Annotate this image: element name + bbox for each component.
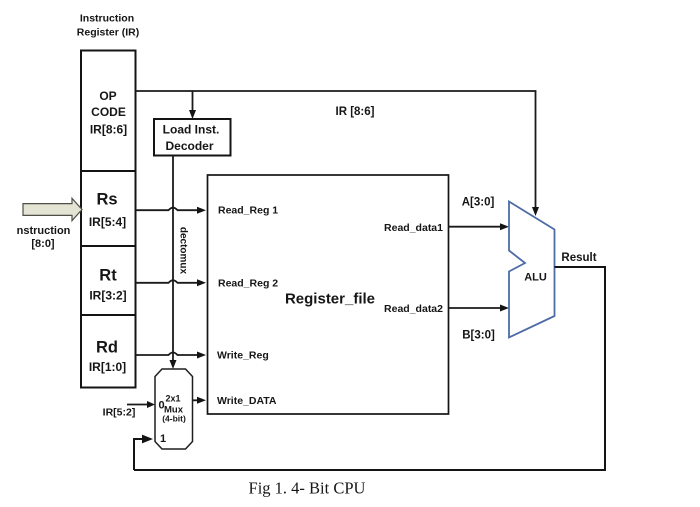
svg-text:Write_DATA: Write_DATA (217, 395, 277, 407)
svg-text:Read_data2: Read_data2 (384, 303, 443, 315)
svg-text:B[3:0]: B[3:0] (462, 330, 495, 342)
svg-text:Read_data1: Read_data1 (384, 222, 443, 234)
svg-text:IR[1:0]: IR[1:0] (89, 360, 126, 374)
svg-text:IR[8:6]: IR[8:6] (90, 123, 127, 137)
svg-text:Load Inst.: Load Inst. (163, 123, 220, 137)
svg-text:Decoder: Decoder (165, 139, 213, 153)
svg-text:CODE: CODE (91, 105, 126, 119)
svg-text:Instruction: Instruction (80, 13, 134, 25)
svg-text:Result: Result (561, 252, 596, 264)
svg-text:A[3:0]: A[3:0] (462, 197, 495, 209)
svg-text:IR[5:4]: IR[5:4] (89, 215, 126, 229)
svg-text:Read_Reg 2: Read_Reg 2 (218, 278, 278, 290)
svg-text:Read_Reg 1: Read_Reg 1 (218, 205, 278, 217)
svg-text:OP: OP (99, 89, 116, 103)
svg-text:Rd: Rd (96, 339, 118, 357)
svg-text:1: 1 (160, 433, 166, 445)
svg-text:nstruction: nstruction (17, 225, 71, 237)
svg-text:[8:0]: [8:0] (31, 238, 55, 250)
svg-text:Fig 1. 4- Bit CPU: Fig 1. 4- Bit CPU (249, 479, 366, 498)
svg-text:Rt: Rt (99, 266, 117, 284)
svg-text:Write_Reg: Write_Reg (217, 350, 269, 362)
svg-text:ALU: ALU (524, 272, 547, 284)
svg-text:Register (IR): Register (IR) (77, 27, 139, 39)
svg-text:(4-bit): (4-bit) (162, 414, 186, 424)
svg-text:dectomux: dectomux (178, 227, 189, 275)
svg-text:IR[5:2]: IR[5:2] (103, 407, 136, 419)
svg-text:2x1: 2x1 (165, 394, 180, 404)
svg-text:Register_file: Register_file (285, 291, 375, 308)
svg-text:IR[3:2]: IR[3:2] (89, 289, 126, 303)
svg-text:IR [8:6]: IR [8:6] (336, 106, 375, 118)
svg-text:Rs: Rs (96, 191, 117, 209)
